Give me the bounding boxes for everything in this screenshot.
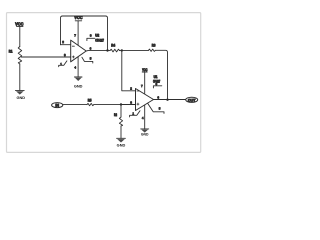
resistor R2 — [114, 113, 123, 126]
wire IN to R5 — [63, 104, 87, 106]
svg-text:GND: GND — [17, 96, 26, 100]
svg-text:R5: R5 — [88, 98, 92, 102]
svg-text:R4: R4 — [111, 44, 115, 48]
pin 5 stub U2 — [82, 57, 93, 63]
pin 1 stub U2 — [59, 61, 67, 67]
svg-text:OPA227: OPA227 — [95, 39, 104, 43]
wire node C to U1 pin3 — [121, 104, 136, 106]
svg-text:8: 8 — [90, 34, 92, 38]
pin 8 stub U1 — [153, 86, 161, 88]
svg-text:VCC: VCC — [142, 68, 148, 72]
wire node C down to R2 — [120, 105, 122, 118]
wire R1 to GND1 — [19, 64, 21, 90]
svg-text:7: 7 — [74, 33, 76, 37]
power VCC1 (left) — [15, 21, 23, 26]
node junction at feedback/output — [106, 49, 108, 51]
wire U1 output to OUT — [154, 99, 186, 101]
svg-text:GND: GND — [117, 144, 126, 148]
wire R4 to node B — [120, 50, 122, 52]
wire R5 to node C — [94, 104, 121, 106]
wire U2 output — [86, 50, 110, 52]
wire node B down to U1 pin2 — [122, 51, 136, 91]
svg-text:3: 3 — [130, 101, 132, 105]
ground GND4 (bottom) — [117, 138, 126, 147]
wire R2 to GND4 — [120, 126, 122, 138]
svg-text:2: 2 — [62, 40, 64, 44]
node junction output/feedback — [166, 99, 168, 101]
svg-text:R2: R2 — [114, 113, 117, 117]
svg-text:2: 2 — [130, 87, 132, 91]
svg-text:5: 5 — [90, 57, 92, 61]
wire tap R1 to U2 pin3 — [21, 56, 70, 58]
pin 4 wire U1 to ground — [144, 105, 146, 129]
ground GND3 (under U1) — [141, 129, 150, 137]
svg-text:VCC: VCC — [74, 15, 82, 20]
node B junction — [121, 49, 123, 51]
pin 1 stub U1 — [130, 111, 140, 117]
ground GND1 (left) — [15, 90, 25, 100]
svg-text:4: 4 — [74, 66, 76, 70]
wire VCC3 to U1 pin7 — [144, 72, 146, 94]
terminal IN — [52, 103, 63, 108]
svg-text:3: 3 — [64, 53, 66, 57]
pin 4 wire U2 to ground — [77, 57, 79, 77]
power VCC2 (top, U2 pin7) — [74, 15, 82, 21]
svg-text:OUT: OUT — [188, 98, 196, 102]
ground GND2 (under U2) — [74, 77, 83, 88]
svg-text:U2: U2 — [95, 33, 99, 37]
svg-text:IN: IN — [55, 104, 59, 108]
power VCC3 (above U1) — [142, 68, 148, 72]
resistor R1 (with tap) — [9, 47, 22, 65]
svg-text:7: 7 — [141, 84, 143, 88]
terminal OUT — [186, 97, 198, 102]
resistor R4 — [110, 44, 120, 52]
svg-text:6: 6 — [90, 46, 92, 50]
svg-text:GND: GND — [74, 84, 83, 88]
op-amp U1 — [136, 75, 161, 110]
svg-text:VCC: VCC — [15, 21, 23, 26]
resistor R5 (input) — [87, 98, 94, 105]
feedback wire R3 to U1 output — [155, 50, 167, 100]
wire U2 pin2 — [61, 44, 71, 46]
svg-text:R3: R3 — [152, 43, 156, 47]
wire node B to R3 — [122, 49, 149, 51]
pin 5 stub U1 — [148, 103, 164, 113]
feedback wire box U2 (out to minus input) — [61, 16, 108, 51]
wire VCC2 to U2 pin7 — [77, 21, 79, 45]
svg-text:R1: R1 — [9, 50, 13, 54]
svg-text:6: 6 — [157, 95, 159, 99]
svg-text:GND: GND — [141, 132, 149, 136]
wire VCC1 to R1 — [19, 26, 21, 46]
pin 8 stub U2 — [87, 38, 95, 40]
resistor R3 — [149, 43, 156, 51]
svg-text:5: 5 — [159, 107, 161, 111]
svg-text:4: 4 — [142, 116, 144, 120]
node C junction — [120, 103, 122, 105]
op-amp U2 — [71, 33, 104, 61]
